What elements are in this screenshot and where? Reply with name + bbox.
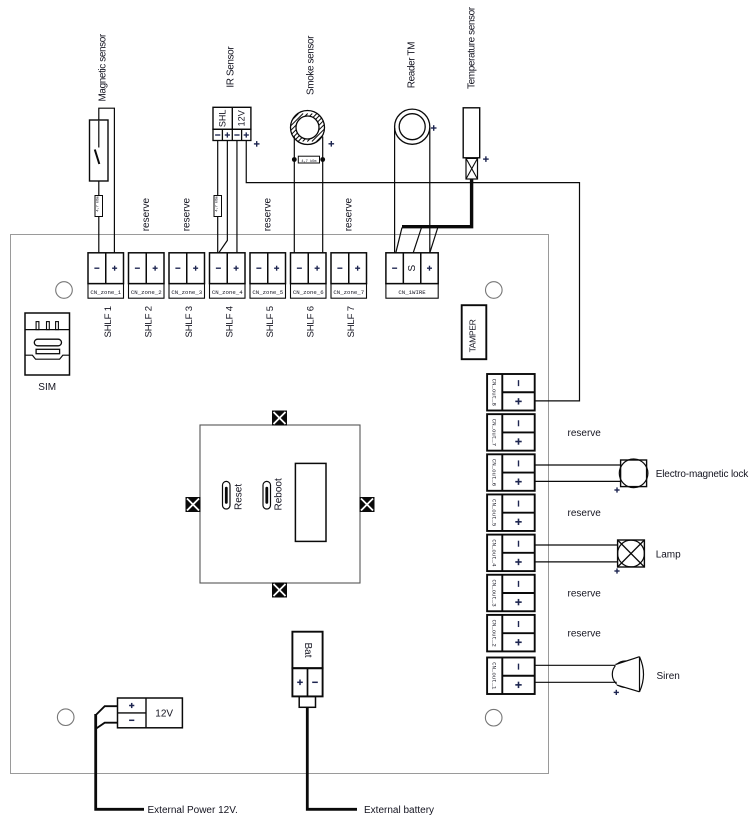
fiducial X left — [186, 497, 201, 512]
svg-text:CN_out_8: CN_out_8 — [490, 379, 497, 407]
svg-text:SHLF 7: SHLF 7 — [346, 306, 357, 337]
main board PCB outline — [11, 235, 549, 774]
polarity mark + (lock) — [614, 489, 619, 491]
resistor 4,7 kOm (smoke) — [298, 156, 319, 164]
thick wire external power — [96, 714, 144, 809]
polarity mark + (IR) — [254, 143, 260, 145]
svg-text:12V: 12V — [155, 709, 173, 720]
svg-text:reserve: reserve — [141, 198, 152, 232]
wire magnetic sensor top to CN_zone_1 + — [99, 108, 115, 253]
wire 12V - stub — [96, 723, 117, 729]
wire smoke left to CN_zone_6 - — [293, 137, 295, 253]
wire CN_out_6 - to lock — [535, 464, 621, 466]
smoke sensor ring — [271, 111, 345, 145]
svg-text:Smoke sensor: Smoke sensor — [306, 35, 317, 95]
terminal block CN_out_7 — [487, 414, 535, 451]
svg-text:SHL: SHL — [217, 110, 227, 128]
mounting hole bottom-right — [485, 709, 502, 726]
svg-text:SHLF 2: SHLF 2 — [143, 306, 154, 337]
svg-text:Magnetic sensor: Magnetic sensor — [97, 33, 108, 101]
terminal block CN_out_1 — [487, 658, 535, 695]
wire magnetic sensor bottom to resistor — [98, 181, 100, 196]
svg-text:S: S — [407, 265, 418, 272]
svg-text:External Power 12V.: External Power 12V. — [148, 805, 238, 816]
polarity mark + (smoke) — [329, 143, 335, 145]
wire reader right to CN_1WIRE + — [429, 128, 431, 253]
svg-text:CN_zone_1: CN_zone_1 — [90, 289, 121, 296]
thick wire temperature sensor cable — [402, 179, 472, 227]
relay rectangle — [295, 463, 326, 541]
12V power connector — [118, 698, 183, 728]
wire tap to CN_1WIRE + — [430, 228, 438, 253]
wire IR 12V+ bus to CN_out_8 + — [246, 141, 579, 401]
svg-text:Electro-magnetic lock: Electro-magnetic lock — [656, 469, 750, 480]
wire IR SHL- to resistor — [217, 141, 219, 196]
svg-text:Reader TM: Reader TM — [407, 42, 418, 88]
wire CN_out_4 - to lamp — [535, 544, 618, 546]
wire 12V + stub — [96, 706, 118, 715]
wire IR 12V- to CN_zone_4 + — [236, 141, 238, 253]
mounting hole bottom-left — [57, 709, 74, 726]
svg-text:reserve: reserve — [568, 629, 602, 640]
svg-text:Lamp: Lamp — [656, 550, 681, 561]
wire resistor to CN_zone_1 - — [98, 217, 100, 253]
terminal block CN_out_5 — [487, 494, 535, 531]
polarity mark + (siren) — [614, 691, 619, 693]
polarity mark + (temperature) — [483, 158, 489, 160]
wire CN_out_1 + to siren — [535, 681, 620, 683]
mounting hole top-right — [486, 282, 503, 299]
svg-text:IR Sensor: IR Sensor — [225, 46, 236, 88]
battery plug stub — [299, 696, 315, 707]
battery pin block + - — [292, 668, 322, 696]
svg-text:SIM: SIM — [38, 382, 56, 393]
terminal block CN_zone_7 — [331, 253, 367, 298]
svg-text:reserve: reserve — [568, 589, 602, 600]
terminal block CN_1WIRE — [386, 253, 438, 298]
terminal block CN_zone_6 — [291, 253, 327, 298]
electro-magnetic lock symbol — [619, 459, 648, 488]
resistor 4.7 kOm (magnetic) — [95, 196, 103, 217]
svg-text:4,7 kOm: 4,7 kOm — [301, 159, 316, 164]
polarity mark + (reader) — [431, 127, 437, 129]
CPU module outline — [200, 425, 360, 583]
temperature sensor fuse X box — [466, 158, 478, 179]
svg-text:4,7 kOm: 4,7 kOm — [215, 197, 220, 212]
svg-text:reserve: reserve — [263, 198, 274, 232]
wire smoke right to CN_zone_6 + — [322, 137, 324, 253]
polarity mark + (lamp) — [614, 570, 619, 572]
svg-text:CN_out_7: CN_out_7 — [490, 419, 497, 446]
svg-text:reserve: reserve — [182, 198, 193, 232]
svg-text:SHLF 1: SHLF 1 — [103, 306, 114, 337]
IR sensor pin row - + - + — [213, 129, 251, 140]
terminal block CN_out_4 — [487, 535, 535, 572]
svg-text:SHLF 5: SHLF 5 — [265, 306, 276, 337]
svg-text:CN_1WIRE: CN_1WIRE — [398, 289, 426, 296]
svg-text:CN_out_1: CN_out_1 — [490, 662, 497, 690]
TAMPER switch box — [462, 305, 487, 359]
svg-text:CN_out_4: CN_out_4 — [490, 539, 497, 567]
terminal block CN_zone_4 — [210, 253, 246, 298]
svg-text:12V: 12V — [236, 110, 246, 126]
terminal block CN_zone_1 — [88, 253, 124, 298]
svg-text:reserve: reserve — [568, 508, 602, 519]
IR sensor connector SHL/12V — [213, 107, 251, 129]
fiducial X bottom — [272, 583, 287, 598]
svg-text:TAMPER: TAMPER — [467, 319, 477, 352]
svg-text:CN_out_3: CN_out_3 — [490, 579, 497, 607]
wire tap to CN_1WIRE S — [413, 228, 421, 253]
wire reader left to CN_1WIRE - — [394, 128, 396, 253]
svg-text:reserve: reserve — [344, 198, 355, 232]
svg-text:Temperature sensor: Temperature sensor — [467, 6, 478, 89]
terminal block CN_zone_3 — [169, 253, 205, 298]
fiducial X top — [272, 411, 287, 426]
reader TM probe — [395, 109, 430, 144]
svg-text:CN_zone_4: CN_zone_4 — [212, 289, 243, 296]
wire tap to CN_1WIRE - — [396, 228, 402, 253]
svg-text:Reset: Reset — [234, 484, 245, 510]
SIM holder — [25, 313, 70, 375]
svg-text:CN_zone_7: CN_zone_7 — [333, 289, 364, 296]
wire CN_out_4 + to lamp — [535, 561, 618, 563]
svg-text:reserve: reserve — [568, 428, 602, 439]
svg-text:Bat: Bat — [302, 642, 313, 657]
terminal block CN_out_8 — [487, 374, 535, 411]
terminal block CN_out_3 — [487, 575, 535, 612]
svg-text:SHLF 3: SHLF 3 — [184, 306, 195, 337]
wire CN_out_1 - to siren — [535, 664, 619, 666]
svg-text:CN_zone_6: CN_zone_6 — [293, 289, 324, 296]
svg-text:CN_out_5: CN_out_5 — [490, 499, 497, 527]
terminal block CN_zone_5 — [250, 253, 286, 298]
temperature sensor body — [463, 108, 480, 158]
wire IR SHL+ to CN_zone_4 - — [219, 141, 228, 253]
wire resistor to CN_zone_4 - — [217, 217, 219, 253]
lamp symbol — [618, 540, 645, 567]
svg-text:CN_out_2: CN_out_2 — [490, 619, 497, 647]
terminal block CN_out_2 — [487, 615, 535, 652]
svg-text:CN_out_6: CN_out_6 — [490, 459, 497, 487]
terminal block CN_out_6 — [487, 454, 535, 491]
thick wire external battery — [307, 707, 357, 809]
svg-text:CN_zone_2: CN_zone_2 — [131, 289, 162, 296]
svg-text:CN_zone_3: CN_zone_3 — [171, 289, 202, 296]
svg-text:External battery: External battery — [364, 805, 434, 816]
resistor 4.7 kOm (IR) — [214, 196, 222, 217]
Reboot button — [263, 481, 271, 509]
junction dot right — [320, 157, 325, 162]
svg-text:Siren: Siren — [657, 671, 680, 682]
magnetic sensor body — [90, 120, 109, 181]
wire CN_out_6 + to lock — [535, 480, 621, 482]
Reset button — [223, 481, 231, 509]
svg-text:SHLF 6: SHLF 6 — [305, 306, 316, 337]
mounting hole top-left — [56, 282, 73, 299]
svg-text:SHLF 4: SHLF 4 — [224, 305, 235, 337]
terminal block CN_zone_2 — [129, 253, 165, 298]
junction dot left — [292, 157, 297, 162]
fiducial X right — [360, 497, 375, 512]
svg-text:4,7 kOm: 4,7 kOm — [96, 197, 101, 212]
battery connector Bat — [292, 632, 322, 669]
siren horn symbol — [612, 657, 643, 692]
svg-text:Reboot: Reboot — [274, 478, 285, 510]
svg-text:CN_zone_5: CN_zone_5 — [252, 289, 283, 296]
